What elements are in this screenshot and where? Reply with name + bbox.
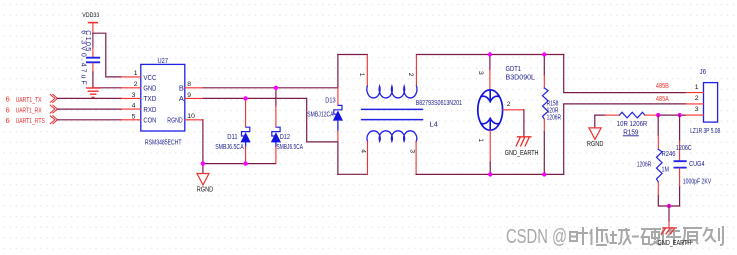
svg-text:3: 3	[409, 149, 416, 153]
connector J6 LZ1R 3P 5.08	[690, 67, 720, 135]
junction R246 top	[656, 113, 660, 117]
svg-text:5: 5	[132, 113, 136, 120]
svg-text:VDD33: VDD33	[82, 12, 99, 19]
wire UART1_RTS to pin5	[57, 119, 121, 121]
junction pin10 bottom	[201, 161, 205, 165]
diode D11 SMBJ6.5CA	[215, 99, 251, 164]
U27 pin 3 TXD	[122, 92, 157, 103]
svg-text:GND: GND	[143, 83, 156, 92]
ground (power gnd) under C105	[87, 88, 100, 97]
svg-text:1: 1	[358, 73, 365, 77]
svg-text:B82793S0613N201: B82793S0613N201	[416, 100, 462, 107]
junction D11-A	[243, 96, 247, 100]
svg-text:LZ1R 3P 5.08: LZ1R 3P 5.08	[690, 126, 720, 135]
diode D12 SMBJ6.5CA	[271, 88, 303, 164]
ground RGND	[197, 174, 214, 194]
svg-text:L4: L4	[430, 120, 438, 129]
svg-text:B3D090L: B3D090L	[506, 72, 536, 81]
wire UART1_TX to pin3	[57, 97, 121, 99]
junction GDT top	[488, 52, 492, 56]
common mode choke L4 B82793S0613N201	[358, 55, 462, 174]
svg-text:UART1_TX: UART1_TX	[16, 95, 42, 104]
wire L4 pin2 to top line	[416, 54, 563, 56]
svg-text:2: 2	[695, 95, 699, 102]
wire top line B to L4 pin1	[338, 54, 367, 56]
svg-text:RGND: RGND	[587, 141, 604, 148]
svg-text:R159: R159	[623, 127, 638, 136]
capacitor C105	[80, 30, 100, 85]
svg-text:3: 3	[477, 71, 484, 75]
wire UART1_RX to pin4	[57, 108, 121, 110]
junction C top	[677, 113, 681, 117]
wire 485B: top line down to J6 pin1	[564, 55, 686, 93]
svg-text:6: 6	[6, 95, 10, 104]
U27 pin 9 A	[179, 92, 203, 103]
svg-text:2: 2	[407, 73, 414, 77]
wire B line to D13 corner	[203, 87, 338, 89]
U27 pin 5 CON	[122, 113, 157, 124]
svg-text:6: 6	[6, 116, 10, 125]
net label UART1_RTS	[6, 116, 58, 125]
svg-text:3: 3	[695, 106, 699, 113]
svg-text:TXD: TXD	[143, 94, 157, 103]
svg-text:J6: J6	[700, 67, 707, 76]
svg-text:9: 9	[187, 92, 191, 99]
U27 pin 10 RGND	[167, 113, 203, 125]
watermark CSDN	[506, 226, 567, 248]
svg-text:B: B	[179, 83, 184, 92]
svg-text:RGND: RGND	[167, 116, 183, 125]
junction D11 bottom	[243, 161, 247, 165]
capacitor CUG4 1000pF 2KV	[674, 115, 711, 206]
J6 pin 1	[686, 84, 704, 93]
U27 pin 2 GND	[122, 81, 157, 92]
svg-text:1206R: 1206R	[547, 113, 562, 122]
wire C105 to GND and pin2	[93, 72, 122, 88]
net label UART1_TX	[6, 94, 58, 103]
power symbol VDD33	[82, 12, 99, 33]
net label UART1_RX	[6, 105, 58, 114]
svg-text:1: 1	[477, 138, 484, 142]
resistor R246 1M	[637, 115, 680, 206]
wire bottom rail to diodes	[203, 163, 276, 165]
svg-text:RXD: RXD	[143, 105, 156, 114]
junction R158 top	[542, 52, 546, 56]
svg-text:R246: R246	[662, 149, 676, 158]
ground RGND (near J6)	[587, 128, 604, 148]
svg-text:CUG4: CUG4	[689, 159, 705, 168]
svg-text:GND_EARTH: GND_EARTH	[658, 240, 692, 247]
wire 485A: bottom line up to J6 pin2	[564, 104, 686, 174]
svg-text:1000pF 2KV: 1000pF 2KV	[683, 176, 711, 185]
svg-text:VCC: VCC	[143, 73, 156, 82]
svg-text:4: 4	[359, 149, 366, 153]
resistor R159 10R	[605, 112, 657, 136]
svg-text:U27: U27	[158, 56, 169, 65]
junction bottom rail	[667, 204, 671, 208]
svg-text:D12: D12	[280, 132, 290, 141]
U27 pin 4 RXD	[122, 103, 157, 114]
svg-text:UART1_RTS: UART1_RTS	[16, 116, 45, 125]
wire VDD33 to C105 and branch to pin1	[93, 33, 122, 77]
svg-text:A: A	[179, 94, 184, 103]
U27 pin 8 B	[179, 81, 203, 92]
svg-text:SMBJ6.5CA: SMBJ6.5CA	[215, 142, 244, 151]
junction GDT bottom	[488, 172, 492, 176]
svg-text:D11: D11	[227, 132, 237, 141]
wire to RGND	[202, 164, 204, 174]
svg-text:CSDN @: CSDN @	[506, 226, 567, 248]
svg-text:485A: 485A	[656, 94, 669, 103]
svg-text:RSM3485ECHT: RSM3485ECHT	[145, 138, 182, 147]
svg-text:3: 3	[132, 92, 136, 99]
wire to GND_EARTH	[668, 206, 670, 228]
svg-text:SMBJ12CA: SMBJ12CA	[307, 110, 333, 119]
J6 pin 3	[686, 106, 704, 115]
U27 pin 1 VCC	[122, 70, 157, 82]
wire A line down and to D13 bottom	[203, 98, 338, 141]
wire L4 pin3 to bottom line	[416, 173, 564, 175]
svg-text:D13: D13	[325, 95, 335, 104]
svg-text:6: 6	[6, 105, 10, 114]
wire pin10 down to bottom rail	[202, 120, 204, 164]
ic U27 RSM3485ECHT body	[141, 56, 185, 147]
svg-text:CON: CON	[143, 116, 156, 125]
svg-text:RGND: RGND	[197, 187, 214, 194]
svg-text:10: 10	[187, 113, 195, 120]
svg-text:GND_EARTH: GND_EARTH	[505, 150, 539, 157]
ground GND_EARTH (GDT pin2)	[505, 137, 539, 157]
svg-text:2: 2	[507, 101, 511, 108]
J6 pin 2	[686, 95, 704, 104]
junction D12-B	[274, 86, 278, 90]
wire J6 pin3 net	[595, 115, 686, 128]
svg-text:1: 1	[134, 70, 138, 77]
wire D13 bottom to L4 pin4	[338, 173, 368, 175]
svg-text:1206R: 1206R	[637, 160, 652, 169]
svg-text:SMBJ6.5CA: SMBJ6.5CA	[277, 142, 304, 151]
svg-text:2: 2	[134, 81, 138, 88]
diode D13 SMBJ12CA	[307, 55, 343, 175]
gas discharge tube GDT1 B3D090L	[477, 55, 535, 175]
junction R158 bottom	[542, 172, 546, 176]
svg-text:1M: 1M	[662, 164, 670, 173]
svg-text:485B: 485B	[656, 81, 669, 90]
svg-text:4: 4	[132, 103, 136, 110]
svg-text:8: 8	[187, 81, 191, 88]
svg-text:1206C: 1206C	[676, 143, 692, 152]
resistor R158 120R	[543, 55, 562, 175]
svg-text:1: 1	[695, 84, 699, 91]
ground GND_EARTH (bottom)	[658, 228, 692, 247]
svg-text:UART1_RX: UART1_RX	[16, 106, 42, 115]
